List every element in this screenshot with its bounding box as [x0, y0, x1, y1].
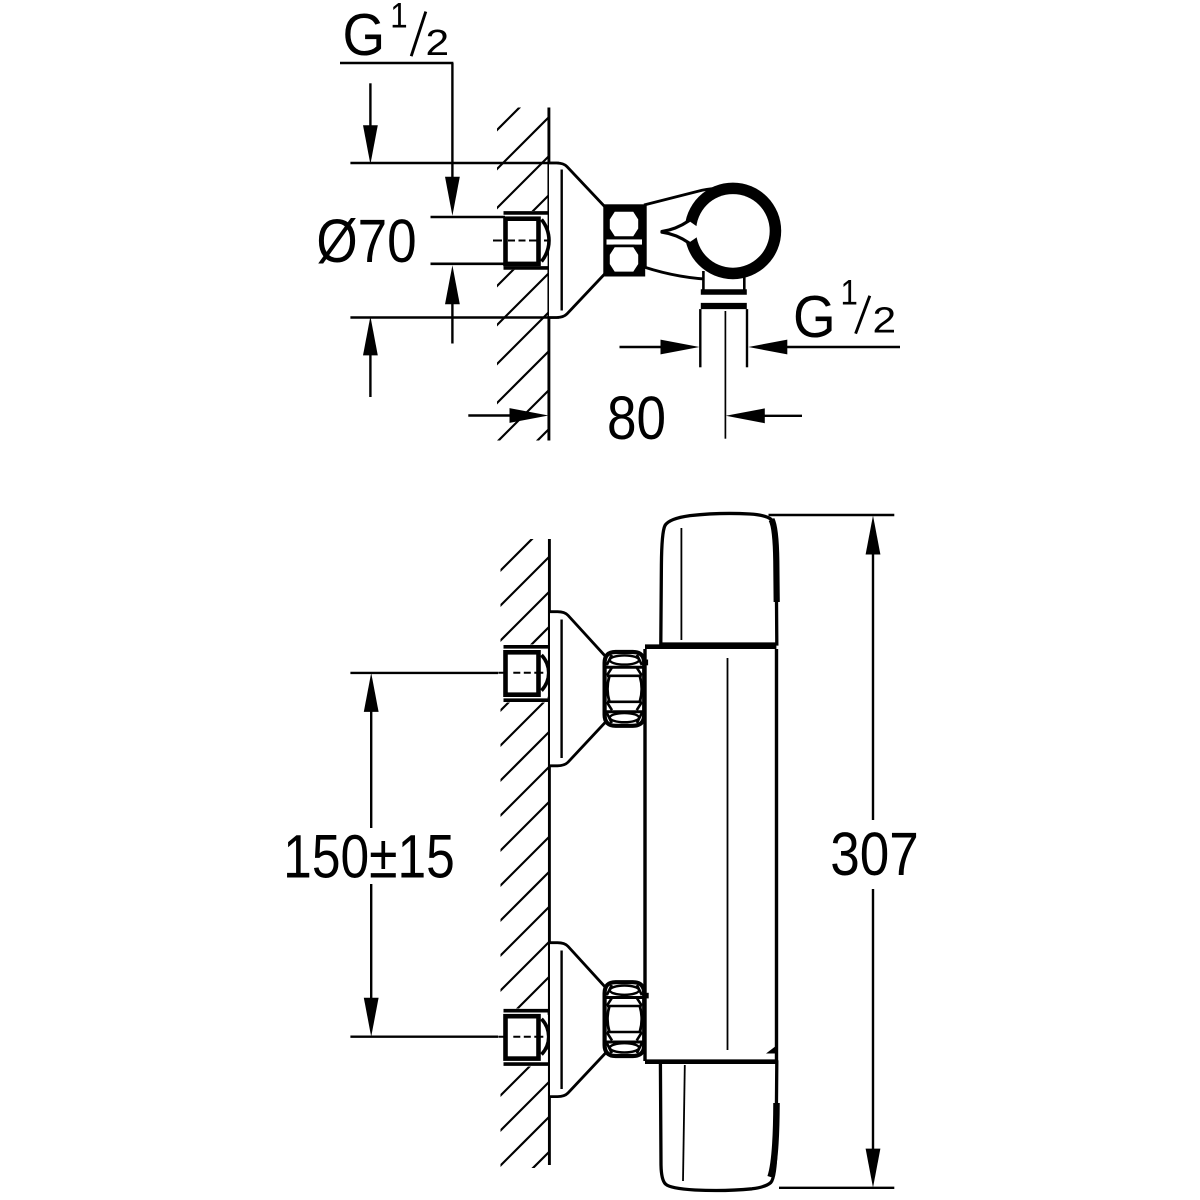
svg-text:1: 1	[841, 274, 858, 313]
svg-text:G: G	[793, 284, 836, 350]
svg-text:307: 307	[830, 821, 919, 889]
svg-text:1: 1	[390, 0, 407, 36]
svg-text:2: 2	[426, 23, 450, 63]
svg-text:2: 2	[873, 300, 897, 340]
svg-text:Ø70: Ø70	[316, 207, 416, 275]
svg-text:80: 80	[607, 384, 666, 452]
svg-text:G: G	[343, 2, 386, 68]
svg-text:150±15: 150±15	[283, 822, 455, 890]
